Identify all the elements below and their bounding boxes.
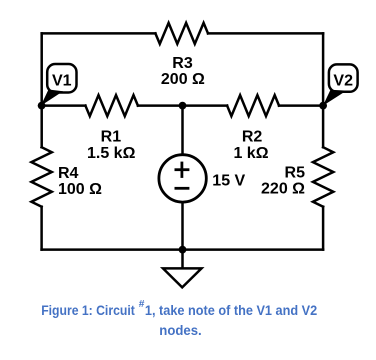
svg-text:R5: R5 <box>285 165 306 182</box>
svg-text:V2: V2 <box>333 73 353 90</box>
svg-text:1 kΩ: 1 kΩ <box>233 145 268 162</box>
svg-text:Figure 1: Circuit: Figure 1: Circuit <box>41 302 135 318</box>
svg-text:1, take note of the V1 and V2: 1, take note of the V1 and V2 <box>145 302 317 318</box>
svg-text:R1: R1 <box>101 129 122 146</box>
svg-text:R3: R3 <box>172 55 193 72</box>
svg-text:15 V: 15 V <box>212 172 245 189</box>
svg-text:V1: V1 <box>52 73 72 90</box>
svg-text:R4: R4 <box>58 165 79 182</box>
svg-text:nodes.: nodes. <box>159 322 201 338</box>
svg-text:100 Ω: 100 Ω <box>58 181 102 198</box>
svg-text:200 Ω: 200 Ω <box>161 71 205 88</box>
svg-text:#: # <box>139 299 145 310</box>
svg-text:220 Ω: 220 Ω <box>261 181 305 198</box>
svg-text:R2: R2 <box>242 129 263 146</box>
svg-text:1.5 kΩ: 1.5 kΩ <box>87 145 136 162</box>
